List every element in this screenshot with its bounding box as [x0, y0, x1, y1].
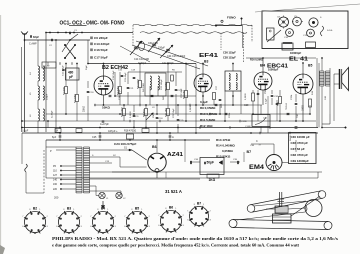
capacitor C18c [133, 77, 136, 78]
svg-text:R7 0.5MΩ: R7 0.5MΩ [121, 107, 123, 117]
dial pointer diagonal 3 [120, 46, 150, 62]
svg-text:AZ41: AZ41 [167, 152, 183, 158]
svg-text:7: 7 [90, 216, 91, 218]
svg-text:5: 5 [64, 233, 65, 235]
volume pot R [252, 93, 255, 101]
wire [195, 96, 197, 133]
svg-text:7: 7 [124, 216, 125, 218]
wire [65, 94, 67, 114]
svg-text:8μF: 8μF [52, 136, 57, 139]
svg-text:33KΩ: 33KΩ [83, 106, 86, 112]
svg-text:C23 50pF: C23 50pF [181, 88, 183, 98]
capacitor C33 [295, 103, 298, 104]
wire EM4 to table [282, 162, 289, 164]
tone network box C29 [252, 115, 270, 127]
svg-text:C25: C25 [92, 136, 97, 139]
wire frame corner [317, 172, 319, 178]
svg-text:S-10L: S-10L [327, 30, 334, 32]
wire [123, 116, 125, 121]
wire to transformer top [46, 146, 76, 148]
wire right vertical [316, 58, 318, 128]
svg-text:447μF +: 447μF + [108, 129, 118, 133]
svg-text:1MΩ: 1MΩ [264, 89, 267, 94]
AZ41 plate left [151, 157, 155, 159]
svg-text:R10 0,05MΩ: R10 0,05MΩ [200, 112, 218, 116]
svg-text:5: 5 [132, 233, 133, 235]
socket B3 bottom view [58, 211, 80, 233]
svg-text:C14B: C14B [245, 126, 251, 128]
wire [127, 92, 129, 105]
svg-text:R4 0.1MΩ: R4 0.1MΩ [137, 79, 139, 89]
wire bus y72 [128, 71, 182, 73]
capacitor table box [289, 133, 317, 164]
svg-text:2: 2 [115, 216, 116, 218]
svg-text:160: 160 [53, 183, 58, 186]
capacitor C18 [87, 91, 90, 92]
svg-text:2: 2 [81, 216, 82, 218]
wire [47, 62, 49, 66]
capacitor C24 [156, 117, 159, 118]
svg-text:C33b: C33b [291, 94, 293, 100]
wire coil link2 [37, 100, 39, 109]
wire bottom bus 2 [46, 177, 318, 179]
grid cap C27 [219, 99, 222, 100]
svg-text:1KΩ: 1KΩ [209, 178, 216, 182]
wire [213, 100, 215, 105]
cord drum [275, 206, 288, 213]
wire [76, 64, 78, 95]
svg-text:C37 63 pF: C37 63 pF [291, 147, 305, 151]
fuse box B [76, 129, 82, 133]
svg-text:EL 41: EL 41 [289, 57, 308, 63]
ground arrow [102, 201, 104, 207]
connector strip [306, 42, 316, 48]
svg-text:8: 8 [97, 209, 98, 211]
svg-text:4: 4 [142, 233, 143, 235]
junction fono [215, 25, 217, 27]
dashed mains selector [43, 150, 45, 193]
wire AVC bus [46, 113, 310, 115]
svg-text:C19 250pF: C19 250pF [119, 89, 121, 100]
wire vertical x88 [87, 40, 89, 64]
svg-text:B6: B6 [152, 145, 157, 149]
wire EBC41 top [262, 58, 264, 72]
wire EF41 cathode [202, 92, 204, 105]
svg-text:B3: B3 [67, 206, 71, 210]
svg-text:C16 50pF: C16 50pF [94, 48, 108, 52]
svg-text:C12B: C12B [241, 121, 247, 123]
svg-text:C29: C29 [244, 104, 249, 107]
svg-text:C17 50pF: C17 50pF [94, 56, 108, 60]
svg-text:70Ω: 70Ω [297, 114, 299, 118]
wire [157, 86, 159, 96]
svg-text:C28 115pF: C28 115pF [223, 56, 236, 60]
svg-text:0,1MΩ: 0,1MΩ [130, 111, 132, 118]
socket B5 bottom view [126, 211, 148, 233]
svg-text:R8 3KΩ: R8 3KΩ [143, 109, 145, 117]
wire lamp feed2 [90, 190, 122, 192]
gang coupling dashed line upper [133, 24, 252, 26]
wire HV mid [90, 156, 121, 158]
wire left frame lower [45, 140, 47, 178]
svg-text:7: 7 [158, 215, 159, 217]
tube position B6 top view [286, 29, 294, 37]
svg-text:0,05MΩ: 0,05MΩ [222, 149, 233, 153]
svg-text:C39 12000pF: C39 12000pF [291, 159, 310, 163]
wire ground bus [22, 132, 318, 134]
wire [133, 105, 135, 112]
svg-text:6: 6 [124, 226, 125, 228]
svg-text:2: 2 [47, 216, 48, 218]
svg-text:2: 2 [210, 210, 211, 212]
wire x258 [257, 90, 259, 121]
svg-text:EF41: EF41 [199, 53, 218, 59]
wire heater2 [90, 178, 201, 180]
svg-text:C6 230pF: C6 230pF [94, 36, 108, 40]
wire [167, 90, 169, 105]
wire fono drop [241, 19, 243, 26]
electrolytic can C24 [267, 28, 275, 40]
wire [271, 90, 273, 94]
svg-text:C.AMP: C.AMP [29, 43, 37, 46]
svg-text:B4: B4 [101, 206, 105, 210]
svg-text:B3: B3 [204, 60, 208, 64]
svg-text:e due gamme onde corte, compre: e due gamme onde corte, comprese quelle … [52, 242, 300, 247]
switch contacts [49, 32, 50, 33]
resistor R5c [171, 75, 174, 81]
fuse box A [55, 129, 61, 133]
wire plate to AZ41 [132, 150, 147, 160]
svg-text:10KΩ: 10KΩ [102, 106, 111, 110]
wire EF41 top [202, 64, 204, 75]
coil L2 [38, 86, 39, 100]
capacitor C1 [69, 32, 70, 35]
wire x268 [267, 96, 269, 133]
svg-text:C30 10000 pF: C30 10000 pF [291, 135, 310, 139]
svg-text:3: 3 [149, 226, 150, 228]
svg-text:3: 3 [183, 225, 184, 227]
svg-text:200: 200 [54, 196, 59, 200]
wire [119, 157, 121, 167]
tube EF41 B3 [194, 74, 212, 92]
wire [127, 72, 129, 84]
svg-text:R17 1KΩ: R17 1KΩ [165, 108, 167, 117]
resistor R8 [145, 109, 148, 116]
wire [145, 105, 147, 108]
tuning drum [305, 200, 322, 217]
switch S on box [321, 26, 324, 36]
wire right drop upper [329, 90, 331, 114]
svg-text:6: 6 [56, 226, 57, 228]
junction fono2 [241, 18, 243, 20]
svg-text:5KΩ: 5KΩ [163, 95, 165, 100]
svg-text:4: 4 [108, 233, 109, 235]
oscillator coil L8 [158, 76, 159, 90]
capacitor C21 [127, 87, 130, 88]
wire [252, 101, 254, 114]
wire [252, 90, 254, 93]
cord left [266, 208, 275, 210]
svg-text:1: 1 [107, 209, 108, 211]
wire bus y121 [22, 120, 316, 122]
resistor R17 [167, 109, 170, 116]
svg-text:C11 480pF: C11 480pF [63, 65, 65, 76]
cord diag1 [254, 201, 306, 206]
svg-text:4: 4 [74, 233, 75, 235]
svg-text:R15 82KΩ: R15 82KΩ [216, 155, 231, 159]
svg-text:1: 1 [73, 209, 74, 211]
wire C13 line [90, 162, 113, 164]
svg-text:C26 115pF: C26 115pF [223, 51, 236, 55]
svg-text:1: 1 [203, 204, 204, 206]
trimmer arrow 2 [160, 51, 167, 58]
extra caps row [109, 95, 112, 96]
variable capacitor C4C [166, 49, 170, 50]
wire [230, 161, 240, 163]
svg-text:R2 47KΩ: R2 47KΩ [74, 94, 76, 103]
svg-text:3: 3 [47, 226, 48, 228]
wire [295, 140, 297, 152]
electrolytic C24 [59, 136, 62, 137]
svg-text:C23 160÷575pF: C23 160÷575pF [114, 142, 136, 146]
wire [240, 91, 242, 114]
svg-text:L1 L2: L1 L2 [44, 66, 50, 68]
wire OT primary top [321, 58, 323, 71]
wire antenna down [24, 42, 26, 132]
wire OT sec top [329, 68, 331, 71]
tube ECH42 B2 [94, 76, 113, 95]
svg-text:5: 5 [98, 233, 99, 235]
page edge line [255, 4, 360, 12]
band switch S1 [65, 45, 75, 58]
wire [309, 105, 311, 114]
svg-text:R13 47KΩ: R13 47KΩ [216, 138, 231, 142]
svg-text:C13 230pF: C13 230pF [94, 42, 110, 46]
svg-text:C19 50pF: C19 50pF [113, 70, 115, 80]
resistor R5 [167, 83, 170, 90]
wire OT primary bottom [321, 86, 323, 128]
svg-text:EM4: EM4 [249, 165, 265, 171]
wire [190, 161, 200, 163]
gang dashed vertical right [251, 25, 253, 42]
wire AZ41 top to bus [156, 140, 158, 153]
wire [167, 105, 169, 108]
resistor R6 [185, 91, 188, 98]
wire [145, 116, 147, 128]
cathode resistor R20 [309, 99, 312, 107]
trimmer arrow 1 [146, 113, 153, 120]
wire AZ41 cathode down [156, 173, 158, 178]
svg-text:6: 6 [90, 226, 91, 228]
wire [177, 124, 179, 133]
svg-text:R16 0,5MΩ: R16 0,5MΩ [250, 59, 263, 62]
wire bus y58 [246, 57, 316, 59]
resistor R4 [139, 81, 142, 88]
svg-text:50pF: 50pF [207, 161, 214, 165]
svg-text:7: 7 [56, 216, 57, 218]
svg-text:2: 2 [149, 216, 150, 218]
wire tap top [56, 149, 76, 151]
padder 480pF box [66, 68, 80, 80]
svg-text:B7: B7 [197, 201, 201, 205]
cord diag3 [291, 196, 320, 216]
capacitor C42 [276, 103, 279, 104]
tube position B3 top view [293, 17, 302, 26]
power transformer T1 [76, 147, 82, 193]
wire [251, 143, 274, 145]
svg-text:R5 22KΩ: R5 22KΩ [165, 82, 167, 91]
capacitor list C6/C13/C16/C17 [91, 37, 92, 40]
coil box L1L2 [42, 62, 56, 68]
svg-text:1KΩ: 1KΩ [221, 103, 223, 108]
svg-text:pF: pF [69, 75, 73, 79]
box 50pF/1K [200, 158, 224, 175]
svg-text:4: 4 [176, 232, 177, 234]
scan edge artifacts [0, 15, 2, 250]
wire [149, 86, 151, 105]
svg-text:C6A C6B: C6A C6B [148, 42, 158, 45]
coil L1 [38, 66, 40, 81]
capacitor C22 [175, 89, 178, 90]
tube EBC41 B4 [254, 72, 272, 90]
svg-text:8: 8 [194, 204, 195, 206]
svg-text:3+30pF: 3+30pF [52, 110, 54, 118]
svg-text:10000pF: 10000pF [290, 51, 301, 55]
svg-text:140: 140 [53, 179, 58, 182]
svg-text:R18 4700Ω: R18 4700Ω [124, 130, 136, 133]
wire [139, 88, 141, 105]
output transformer T3 [320, 71, 325, 86]
wire top bus [46, 32, 133, 34]
wire right drop [329, 114, 331, 124]
svg-text:1: 1 [175, 208, 176, 210]
wire [195, 64, 197, 97]
wire right vertical2 [318, 63, 320, 128]
svg-text:C22 100pF: C22 100pF [161, 79, 163, 90]
dial cord lower belt [229, 220, 237, 228]
resistor R1 [65, 87, 68, 94]
capacitor C15 [121, 75, 124, 76]
wire [165, 172, 167, 178]
wire coil gnd [37, 121, 39, 133]
wire [133, 120, 135, 128]
tube position B2 top view [279, 17, 289, 27]
svg-text:R11 5,6MΩ: R11 5,6MΩ [200, 118, 216, 122]
capacitor C23a [133, 115, 136, 116]
svg-text:+ 230pF: + 230pF [156, 46, 165, 49]
dial cord upper belt [247, 205, 255, 213]
svg-text:220: 220 [53, 188, 58, 191]
wire [87, 81, 89, 88]
wire [260, 105, 262, 115]
capacitor 4+47pF [102, 121, 105, 122]
wire mains bottom [26, 192, 44, 194]
wire bus y105 [94, 104, 262, 106]
pointer line in box [267, 30, 281, 42]
socket B7 bottom view [189, 206, 209, 227]
svg-text:480: 480 [68, 71, 74, 75]
wire to padder [62, 69, 66, 71]
wire ECH42 anode [103, 64, 105, 77]
wire tap [322, 127, 345, 129]
cord link [288, 208, 306, 209]
svg-text:7: 7 [187, 211, 188, 213]
wire screen bus [88, 63, 196, 65]
wire [175, 94, 177, 114]
svg-text:8: 8 [131, 209, 132, 211]
svg-text:8: 8 [29, 209, 30, 211]
svg-text:R6 50KΩ: R6 50KΩ [183, 90, 185, 99]
AZ41 cathode loop [155, 169, 159, 173]
wire [139, 64, 141, 81]
resistor R7 [123, 109, 126, 116]
wire to L2 [120, 191, 122, 196]
svg-text:4: 4 [203, 226, 204, 228]
svg-text:4: 4 [40, 233, 41, 235]
svg-text:R14 0,045MΩ: R14 0,045MΩ [216, 144, 235, 148]
capacitor C32 [271, 95, 274, 96]
capacitor in box [204, 162, 205, 165]
wire mains down [25, 172, 27, 193]
resistor R16 [279, 97, 282, 104]
svg-text:7: 7 [22, 216, 23, 218]
pilot lamp L1 [99, 192, 105, 198]
svg-text:3: 3 [115, 226, 116, 228]
spring box [273, 214, 292, 223]
svg-text:R9 0,05MΩ: R9 0,05MΩ [200, 106, 216, 110]
fuse box C [142, 129, 149, 133]
wire OT sec [329, 86, 331, 90]
wire IF top [232, 64, 234, 72]
svg-text:6: 6 [22, 226, 23, 228]
loudspeaker [339, 69, 341, 89]
wire antenna bus [25, 39, 91, 41]
wire vertical x46 [45, 33, 47, 133]
coil L3 [38, 109, 40, 121]
wire mains left [21, 133, 23, 164]
wire [156, 122, 158, 133]
wire [65, 64, 67, 87]
wire EM4 top [273, 144, 275, 155]
diode mark in box [219, 161, 223, 165]
wire [322, 123, 330, 125]
svg-text:50pF: 50pF [86, 64, 88, 70]
svg-text:5: 5 [166, 232, 167, 234]
tube position B5 top view [307, 29, 315, 37]
svg-text:B2: B2 [33, 206, 37, 210]
mains plug squiggle [25, 164, 28, 172]
chassis top-view box [262, 11, 348, 49]
wire [184, 140, 186, 162]
wire coil link [37, 81, 39, 86]
arrow to padder [63, 69, 66, 70]
oscillator transformer box [145, 73, 166, 96]
wire [114, 72, 116, 96]
svg-text:A: A [172, 135, 174, 139]
capacitor 82pF antenna [30, 35, 31, 38]
svg-text:25KΩ: 25KΩ [153, 112, 155, 118]
svg-text:6: 6 [187, 220, 188, 222]
wire EBC41 bottom [262, 90, 264, 105]
socket B2 bottom view [24, 211, 46, 233]
dial pointer diagonal 1 [136, 41, 208, 66]
wire [224, 91, 226, 121]
gang dashed vertical left [132, 25, 134, 45]
wire [177, 105, 179, 116]
resistor R3 [119, 87, 122, 94]
junction dots [45, 32, 47, 34]
capacitor C41 [257, 93, 260, 94]
